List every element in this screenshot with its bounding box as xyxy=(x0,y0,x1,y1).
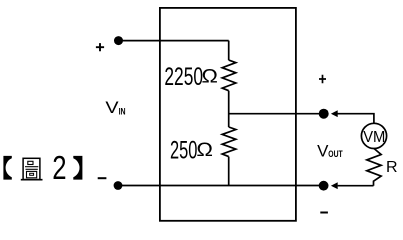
node dot Vin+ xyxy=(114,36,123,45)
caption: right lenticular bracket xyxy=(73,156,82,180)
wire junction to Vout+ node xyxy=(229,113,324,115)
svg-text:250: 250 xyxy=(170,138,197,165)
svg-text:VM: VM xyxy=(363,129,385,146)
voltmeter VM circle xyxy=(361,123,386,148)
node dot Vout- xyxy=(319,181,329,191)
node dot Vout+ xyxy=(319,109,329,119)
svg-text:2: 2 xyxy=(52,150,66,187)
terminal minus (input -) xyxy=(98,177,107,179)
caption: glyph tu (picture) xyxy=(21,158,43,179)
svg-text:Ω: Ω xyxy=(196,140,213,161)
arrow into Vout+ xyxy=(331,110,338,117)
svg-text:2250: 2250 xyxy=(164,64,203,91)
svg-text:Ω: Ω xyxy=(202,66,218,87)
box (device outline) xyxy=(160,8,296,221)
wire meter top xyxy=(337,114,374,124)
terminal minus (output -) xyxy=(320,212,328,214)
wire bottom (Vin- to Vout-) xyxy=(118,185,324,187)
wire divider top lead xyxy=(228,41,230,61)
resistor R1 2250 ohm xyxy=(222,60,236,91)
wire top (Vin+ to divider top) xyxy=(119,40,229,42)
svg-text:V: V xyxy=(105,99,118,117)
svg-text:IN: IN xyxy=(119,106,126,117)
node dot Vin- xyxy=(114,181,123,190)
wire divider bottom lead xyxy=(228,157,230,186)
svg-text:OUT: OUT xyxy=(328,149,342,160)
resistor R2 250 ohm xyxy=(222,127,236,157)
svg-text:R: R xyxy=(386,159,398,176)
wire meter bottom xyxy=(338,185,374,187)
caption: numeral 2 xyxy=(52,150,66,187)
wire divider middle lead xyxy=(228,91,230,127)
terminal plus (input +) xyxy=(96,43,104,51)
terminal plus (output +) xyxy=(319,75,326,83)
arrow into Vout- xyxy=(331,182,338,189)
svg-text:V: V xyxy=(317,143,328,161)
caption figure 2 : left lenticular bracket xyxy=(3,156,11,180)
resistor R (meter load) xyxy=(367,149,381,186)
